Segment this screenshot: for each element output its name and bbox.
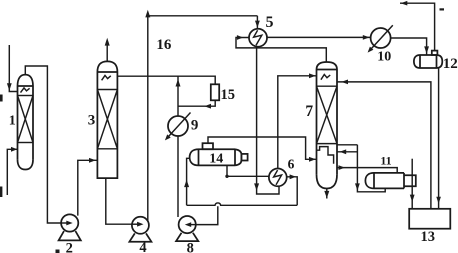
svg-text:1: 1 — [9, 114, 16, 129]
svg-text:2: 2 — [66, 241, 73, 253]
column T3 shell — [97, 61, 117, 178]
wire 16: pump P4 discharge riser and top run to E5 — [145, 10, 257, 221]
rotameter F15 — [211, 84, 219, 100]
svg-text:16: 16 — [156, 37, 172, 53]
pump P2 — [59, 214, 81, 240]
wire P8 suction from circulation line — [196, 206, 218, 224]
rotameter F9 — [165, 113, 191, 141]
column T1 distributor squiggle — [21, 88, 30, 93]
column T7 distributor squiggle — [321, 75, 330, 80]
wire T7 reboiler draw (upper stub) — [337, 144, 357, 146]
svg-text:11: 11 — [380, 154, 391, 168]
wire T1 overhead to pump P2 — [25, 66, 61, 223]
wire T7 bottoms to V11 top (arrow right) — [337, 165, 397, 173]
wire V14 vapor to column T7 feed (arrow right) — [208, 137, 317, 162]
wire feed into T1 top (vertical with down arrow) — [7, 45, 18, 92]
vessel V11 right neck — [404, 175, 416, 186]
tank 13 — [409, 209, 450, 229]
wire E5 left loop to T7 top (arrow) — [236, 35, 326, 62]
wire E6 outlet down to circulation line (arrow right) — [287, 174, 298, 205]
svg-text:14: 14 — [209, 152, 223, 167]
wire pump P8 discharge riser (lower segment) — [177, 136, 179, 217]
vessel V11 shell — [365, 173, 404, 189]
wire circulation bottom line with P8 tee hump — [187, 203, 298, 205]
wire F15 bottom to riser (arrow left) — [178, 100, 215, 108]
heat exchanger E6 — [269, 169, 287, 187]
svg-text:3: 3 — [88, 112, 96, 128]
wire T3 reflux line to rotameter F15 — [117, 76, 215, 84]
column T1 packing X — [18, 96, 34, 143]
column T1 shell — [18, 75, 34, 170]
column T7 packing support line — [317, 85, 338, 87]
drum V12 top nozzle — [432, 51, 438, 55]
column T3 distributor squiggle — [102, 75, 111, 80]
column T7 internal weir — [317, 147, 334, 164]
svg-text:6: 6 — [288, 157, 295, 172]
wire pump P8 discharge riser (upper segment, arrow up into reflux line) — [176, 76, 181, 116]
wire V11 outlet down to tank13 (arrow down) — [410, 159, 415, 209]
wire reflux riser from tank13 line to T7 (arrow left) — [337, 80, 431, 209]
scan artifact left edge upper — [0, 95, 3, 102]
wire E5 bottom outlet down to E6 bottom (arrow down) — [254, 47, 279, 194]
wire V14 bottom outlet to E6 (with junction dot) — [225, 165, 269, 178]
svg-text:13: 13 — [421, 229, 436, 245]
pump P4 — [129, 217, 151, 242]
wire T7 bottoms outlet (arrow down) — [324, 189, 329, 199]
pump P8 — [176, 216, 198, 241]
svg-text:5: 5 — [266, 14, 274, 31]
column T3 packing X — [97, 90, 117, 149]
svg-text:12: 12 — [443, 56, 458, 72]
vessel V14 shell — [190, 149, 242, 165]
wire reboiler downcomer (arrow down) to V11 underside — [355, 145, 385, 192]
wire V12 vent to product out (arrow left) — [400, 1, 435, 51]
drum V12 shell — [414, 55, 442, 68]
column T3 packing support line — [97, 89, 117, 91]
svg-text:4: 4 — [139, 240, 146, 253]
wire T7 reboiler vapor return (arrow left) — [337, 149, 357, 154]
wire line16 drop into E5 top (arrow down) — [255, 16, 260, 29]
heat exchanger E5 — [249, 29, 267, 47]
wire T3 top vent (arrow up) — [105, 38, 110, 62]
wire V12 bottoms down to tank13 (arrow down) — [436, 68, 441, 209]
column T7 shell — [317, 62, 338, 189]
scan artifact left edge lower — [0, 187, 2, 198]
scan artifact bottom left — [56, 250, 60, 253]
vessel V14 right nozzle cap — [241, 154, 247, 161]
wire P2 discharge to T3 (arrow right) — [78, 158, 98, 216]
svg-text:9: 9 — [191, 117, 199, 133]
scan artifact top right — [440, 8, 445, 10]
svg-text:15: 15 — [221, 87, 236, 103]
rotameter R10 — [368, 25, 393, 52]
wire circulation return riser into V14 (arrow up) — [184, 158, 190, 205]
svg-text:7: 7 — [305, 103, 313, 120]
column T1 packing support line — [18, 95, 34, 97]
wire feed into T1 lower side (arrow right) — [7, 147, 17, 195]
svg-text:10: 10 — [377, 49, 391, 64]
wire T3 bottoms to pump P4 — [106, 178, 132, 224]
wire E6 top riser to T7 upper feed (arrow right) — [278, 73, 317, 168]
svg-text:8: 8 — [187, 241, 194, 253]
vessel V14 top nozzle — [203, 143, 214, 149]
wire E5 right outlet to R10 (arrow right) — [267, 35, 371, 40]
wire R10 to drum V12 (arrow down) — [391, 38, 429, 55]
column T7 packing X — [317, 86, 338, 143]
